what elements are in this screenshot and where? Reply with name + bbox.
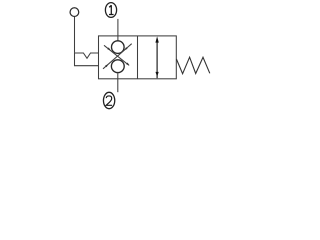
digit 2 [106,96,112,105]
valve body outline [99,36,177,79]
port balloon 1 [105,3,116,18]
arrowhead on seat line 2 lower [105,64,108,67]
digit 1 [109,5,114,14]
manual knob (push button) [70,8,79,17]
arrowhead on seat line 1 end [126,63,129,66]
flow arrow (double headed) in right position [156,40,158,79]
return spring [176,57,209,73]
wire: port 2 line from valve [117,72,119,92]
check ball top [112,41,125,54]
check ball bottom [111,60,124,73]
arrowhead on seat line 2 upper [124,47,127,50]
arrowhead on seat line 1 upper [107,47,110,50]
seat line 2 (upper-right to lower-left) [103,44,132,69]
detent actuator box with V notch [75,53,99,66]
wire: knob stem [74,17,76,53]
seat line 1 (upper-left to lower-right) [104,45,129,65]
wire: port 1 line into valve [117,19,119,41]
port balloon 2 [103,92,114,108]
position divider line [137,36,139,79]
